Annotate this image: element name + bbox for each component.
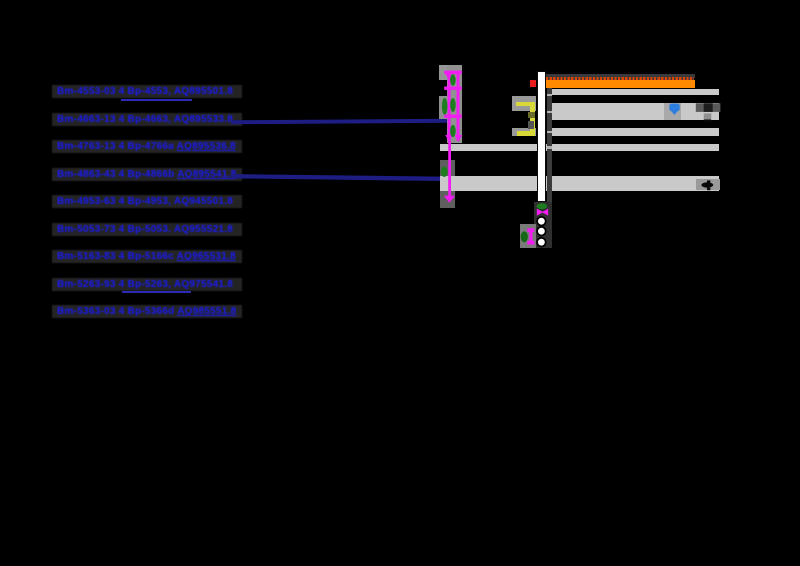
dark backdrop below bar [534,202,552,248]
tick 2 [444,115,462,118]
tick mark 3 [547,131,553,134]
red marker square [530,80,536,87]
nib under top bar left [446,74,452,80]
blue star marker [667,101,683,117]
contig map dark lower block [440,160,455,208]
tick strip right of white bar [547,85,553,248]
bottom green oval under bar [536,203,548,210]
vesicle circle 3 [535,236,548,249]
top crossbar [444,71,462,75]
track label row 3 [52,140,242,153]
yellow bracket spine [530,102,535,135]
track label row 6 [52,223,242,236]
clone feature bar E (spans map to right end) [440,176,719,191]
yellow bracket top arm [516,102,533,106]
clone bar C [552,128,719,136]
track label row 4 [52,168,242,181]
sequence map white bar black border [537,71,547,203]
left rail arrowhead [445,135,453,142]
wire connector row 4 to map [230,172,445,184]
tick mark 1 [547,94,553,97]
gene oval G5 [440,166,449,178]
track label row 2 [52,113,242,126]
contig map gray strip top-left block [439,65,448,81]
gene oval G3 [448,97,458,113]
yellow bracket bottom arm [517,131,533,136]
orange bar body [546,80,695,89]
magenta genetic map ladder [436,60,466,210]
gene oval G4 [448,124,458,138]
bottom arrowhead [444,196,455,203]
track label row 8 [52,278,242,291]
right rail arrowhead [454,135,462,142]
yellow bracket top gray block [512,96,536,111]
lower single rail [448,141,451,197]
vesicle circle 1 [535,215,548,228]
track label row 5 [52,195,242,208]
bottom-left magenta dumbbell [526,227,537,246]
right rail [457,71,460,141]
yellow bracket olive corner [528,112,534,118]
gene oval G2 [441,97,449,116]
sequence map white bar [538,72,544,200]
underline row 8 middle token [122,291,191,293]
bottom-left dark green oval [520,231,530,243]
contig map gray strip right column [447,65,462,143]
yellow bracket dark mid block [528,121,534,129]
bar B dark glyph group [694,102,722,124]
orange bar dark top strip [546,74,695,78]
bottom-left gray block [520,224,536,248]
tick mark 2 [547,111,553,114]
tick 1 [444,87,462,90]
clone bar A [552,89,719,95]
gene oval G1 [448,73,458,87]
clone bar B [552,103,719,120]
bar E darker sub-block [696,179,720,191]
track label row 7 [52,250,242,263]
orange bar red dashed edge [546,77,694,80]
bar E black marker glyph [696,178,722,192]
wire connector row 2 to map [230,116,450,128]
clone feature bar D (spans map to right end) [440,144,719,151]
bottom magenta bowtie [536,208,550,217]
tick mark 4 [547,146,553,149]
vesicle circle 2 [535,225,548,238]
bar B darker sub-block [664,103,681,120]
track label row 9 [52,305,242,318]
yellow bracket bottom gray block [512,128,536,136]
left rail [448,71,451,141]
underline row 1 middle token [121,99,192,101]
track label row 1 [52,85,242,98]
contig map gray strip left sub-block [439,96,448,119]
